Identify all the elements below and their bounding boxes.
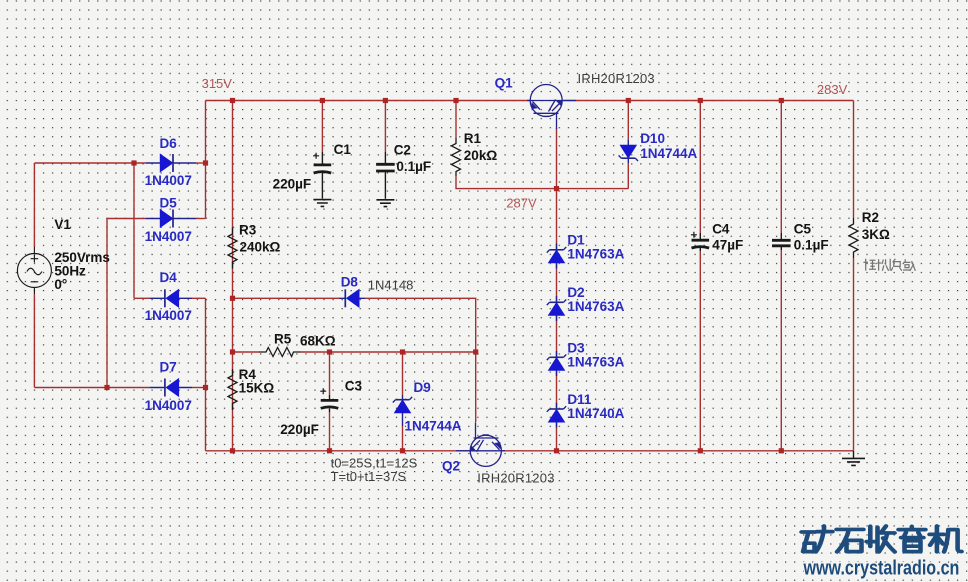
capacitor C1	[313, 152, 331, 199]
svg-text:0.1µF: 0.1µF	[794, 237, 829, 252]
wire D10 bottom lead	[627, 163, 629, 189]
wire Q1 source vertical	[556, 128, 558, 451]
svg-text:D11: D11	[567, 392, 592, 407]
wire R1 top lead	[455, 101, 457, 139]
ground at bottom right	[842, 451, 865, 466]
wire node A vertical D6-D4	[133, 163, 135, 298]
resistor R1	[452, 138, 461, 176]
label R4	[239, 367, 275, 396]
zener diode D11	[547, 403, 566, 428]
svg-text:D4: D4	[160, 270, 178, 285]
transistor Q2	[456, 422, 505, 466]
svg-text:Q2: Q2	[442, 458, 460, 473]
wire node B vertical D5-D7	[106, 219, 108, 388]
wire D9 column	[402, 352, 404, 451]
label D10	[640, 131, 697, 161]
wire bottom rail left of Q2	[206, 450, 471, 452]
wire V1 bottom lead column	[33, 294, 35, 388]
label D6	[145, 136, 192, 188]
svg-text:IRH20R1203: IRH20R1203	[578, 71, 655, 86]
ground under C1	[313, 200, 331, 207]
wire D5 cathode to node	[196, 218, 206, 220]
wire R1 bottom to 287V line	[456, 176, 628, 189]
label C5	[794, 221, 829, 252]
wire bottom rail right of Q2	[502, 450, 854, 452]
wire R5 line right	[301, 351, 476, 353]
svg-text:3KΩ: 3KΩ	[862, 227, 890, 242]
svg-text:R2: R2	[862, 210, 879, 225]
svg-text:1N4007: 1N4007	[145, 398, 192, 413]
svg-text:1N4763A: 1N4763A	[567, 354, 624, 369]
diode D7	[150, 379, 192, 397]
wire D7 anode to node	[192, 387, 206, 389]
wire D6 cathode to node	[196, 162, 206, 164]
label D3	[567, 340, 624, 369]
wire C3 top lead	[329, 352, 331, 395]
wire V1 top lead column	[33, 163, 35, 247]
wire Q2 gate vertical	[475, 352, 477, 422]
svg-text:240kΩ: 240kΩ	[240, 240, 281, 255]
label C1	[273, 142, 352, 191]
resistor R3	[228, 228, 237, 269]
svg-text:287V: 287V	[506, 195, 537, 210]
wire node A to D4 horizontal	[134, 297, 150, 299]
svg-text:D7: D7	[160, 360, 177, 375]
svg-text:C1: C1	[334, 142, 352, 157]
svg-text:D9: D9	[414, 380, 431, 395]
wire C5 column	[780, 101, 782, 451]
label D11	[567, 392, 624, 421]
node 315V	[202, 76, 233, 91]
svg-text:1N4763A: 1N4763A	[567, 246, 624, 261]
label Q1	[495, 71, 655, 91]
label D5	[145, 196, 192, 244]
svg-text:20kΩ: 20kΩ	[464, 148, 498, 163]
resistor R4	[228, 369, 237, 410]
wire C3 bottom lead	[329, 412, 331, 451]
svg-text:D6: D6	[160, 136, 178, 151]
svg-text:D3: D3	[567, 340, 585, 355]
svg-text:R5: R5	[274, 332, 292, 347]
wire R5 line left	[233, 351, 260, 353]
svg-text:R3: R3	[239, 223, 257, 238]
label Q2	[442, 458, 555, 485]
svg-text:D1: D1	[567, 232, 585, 247]
label R3	[239, 223, 281, 255]
svg-text:15KΩ: 15KΩ	[239, 381, 275, 396]
svg-text:D8: D8	[341, 275, 359, 290]
svg-text:C2: C2	[394, 142, 411, 157]
wire R2 column	[853, 101, 855, 451]
capacitor C5	[772, 233, 791, 250]
svg-text:www.crystalradio.cn: www.crystalradio.cn	[803, 557, 960, 579]
svg-text:0°: 0°	[54, 277, 67, 292]
node 283V	[817, 82, 848, 97]
transistor Q1	[527, 85, 576, 130]
zener diode D3	[547, 351, 566, 376]
wire D8 line right to corner	[365, 298, 476, 352]
diode D5	[146, 210, 196, 228]
wire D4 anode to node	[192, 297, 206, 299]
diode D4	[150, 289, 192, 307]
label D4	[145, 270, 192, 323]
svg-text:1N4763A: 1N4763A	[567, 299, 624, 314]
zener diode D9	[393, 395, 412, 426]
wire D8 line left	[233, 297, 340, 299]
svg-text:C5: C5	[794, 221, 812, 236]
capacitor C2	[376, 152, 395, 199]
zener diode D1	[547, 244, 566, 269]
ground under C2	[376, 200, 394, 207]
node 287V	[506, 195, 537, 210]
label D8	[341, 275, 414, 293]
wire bridge output top vertical	[205, 101, 207, 219]
wire 315V top rail right of Q1	[563, 100, 854, 102]
diode D8	[339, 289, 365, 307]
svg-text:IRH20R1203: IRH20R1203	[477, 471, 554, 486]
svg-text:R1: R1	[464, 131, 482, 146]
svg-text:1N4740A: 1N4740A	[567, 406, 624, 421]
svg-text:1N4007: 1N4007	[145, 229, 192, 244]
zener diode D10	[619, 140, 638, 163]
svg-text:D2: D2	[567, 285, 584, 300]
label D1	[567, 232, 624, 261]
wire D10 top lead	[627, 101, 629, 141]
label R1	[464, 131, 498, 163]
svg-text:1N4148: 1N4148	[368, 278, 414, 293]
svg-text:47µF: 47µF	[712, 237, 743, 252]
svg-text:315V: 315V	[202, 76, 233, 91]
resistor R5	[259, 348, 301, 357]
svg-text:D10: D10	[640, 131, 665, 146]
label D7	[145, 360, 192, 413]
svg-text:1N4007: 1N4007	[145, 173, 192, 188]
capacitor C4	[691, 232, 709, 251]
wire bridge output bottom vertical	[205, 298, 207, 451]
watermark big text (crystalradio Chinese logo)	[802, 526, 962, 552]
svg-text:220µF: 220µF	[273, 176, 312, 191]
wire R3 R4 column	[232, 101, 234, 451]
annotation timing text	[331, 455, 418, 484]
wire C1 top lead	[321, 101, 323, 153]
label D2	[567, 285, 624, 314]
capacitor C3	[320, 388, 338, 412]
label R2	[862, 210, 890, 242]
watermark url text	[803, 557, 960, 579]
svg-text:V1: V1	[54, 217, 71, 232]
AC source V1	[17, 247, 51, 294]
svg-text:T=t0+t1=37S: T=t0+t1=37S	[331, 469, 407, 484]
svg-text:C4: C4	[712, 221, 730, 236]
svg-text:68KΩ: 68KΩ	[300, 334, 336, 349]
svg-text:Q1: Q1	[495, 76, 514, 91]
resistor R2	[849, 218, 858, 258]
label D9	[405, 380, 462, 433]
label R5	[274, 332, 336, 349]
svg-text:D5: D5	[160, 196, 178, 211]
wire V1 to D7 horizontal	[34, 387, 150, 389]
wire C2 top lead	[384, 101, 386, 153]
svg-text:1N4744A: 1N4744A	[640, 146, 697, 161]
svg-text:283V: 283V	[817, 82, 848, 97]
wire V1 to D6 horizontal	[34, 162, 146, 164]
svg-text:C3: C3	[345, 379, 363, 394]
zener diode D2	[547, 296, 566, 321]
wire C4 column	[699, 101, 701, 451]
svg-text:1N4744A: 1N4744A	[405, 418, 462, 433]
diode D6	[146, 154, 196, 172]
wire node B to D5 horizontal	[107, 218, 146, 220]
svg-text:0.1µF: 0.1µF	[396, 159, 431, 174]
annotation simulated load (Chinese)	[863, 259, 915, 271]
label V1	[54, 217, 110, 292]
svg-text:220µF: 220µF	[280, 422, 319, 437]
label C2	[394, 142, 431, 174]
svg-text:1N4007: 1N4007	[145, 308, 192, 323]
label C3	[280, 379, 362, 438]
label C4	[712, 221, 743, 252]
wire 315V top rail left of Q1	[206, 100, 530, 102]
